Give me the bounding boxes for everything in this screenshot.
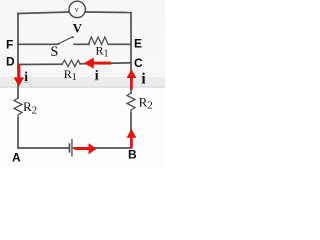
svg-text:V: V: [73, 21, 83, 36]
wire: right vertical below R2 to B: [130, 113, 132, 148]
wire: left vertical below R2 to A: [17, 118, 19, 148]
svg-text:E: E: [134, 37, 142, 51]
wire: left vertical D-to-R2: [17, 14, 19, 99]
scan artifact tick under row i: [95, 80, 98, 81]
resistor R2 left zigzag: [14, 98, 22, 118]
scan artifact tick under left i: [25, 82, 28, 83]
svg-text:C: C: [134, 56, 143, 70]
svg-text:A: A: [12, 150, 21, 164]
wire: top right segment: [85, 11, 131, 14]
battery plate long: [71, 139, 72, 157]
current arrow i down (left wire below D): [18, 65, 21, 79]
svg-text:i: i: [95, 68, 99, 83]
wire: bottom battery to B: [74, 147, 132, 149]
voltmeter U1 circle: [69, 1, 85, 17]
svg-text:D: D: [6, 54, 15, 68]
svg-text:v: v: [75, 5, 79, 14]
resistor R2 right zigzag: [127, 93, 135, 113]
current arrow right (bottom, after battery): [75, 147, 90, 150]
scan shading band: [0, 77, 165, 87]
svg-text:F: F: [6, 38, 13, 52]
svg-text:i: i: [24, 69, 28, 84]
svg-text:i: i: [141, 70, 146, 87]
wire: F-E row left to switch: [18, 43, 58, 45]
wire: bottom left to battery: [18, 147, 69, 149]
svg-text:S: S: [50, 44, 58, 60]
switch S lever: [59, 37, 73, 44]
wire: D-C row left to R1: [18, 63, 62, 65]
svg-text:R1: R1: [64, 67, 77, 83]
current arrow i up (right wire below C): [130, 77, 133, 90]
current arrow i left (D-C row): [93, 62, 112, 65]
resistor R1 lower zigzag: [62, 60, 80, 66]
wire: top left segment: [18, 12, 69, 14]
current arrow i up (right wire above B): [130, 137, 133, 149]
wire: right vertical top: [130, 13, 132, 94]
resistor R1 upper zigzag: [89, 37, 109, 44]
wire: switch to R1: [74, 43, 89, 45]
svg-text:R1: R1: [96, 43, 109, 59]
switch contact dots: [58, 43, 60, 45]
battery plate short: [69, 143, 71, 152]
svg-text:B: B: [128, 148, 137, 162]
wire: R1 to E: [109, 43, 131, 45]
wire: R1 to C: [80, 63, 131, 64]
